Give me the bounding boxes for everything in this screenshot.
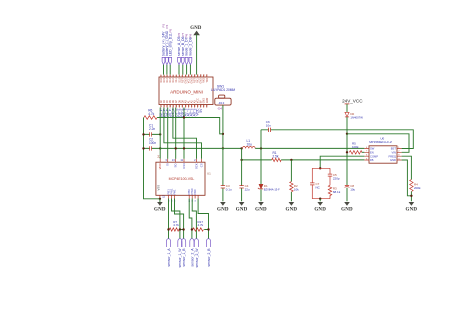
capacitor C5 220p <box>329 168 331 185</box>
pin 28 arduino bottom <box>193 100 197 117</box>
svg-text:200k: 200k <box>414 186 421 190</box>
pin 22 arduino bottom <box>174 100 178 117</box>
node junction R17 left <box>191 228 193 230</box>
wire VCC rail A <box>160 147 241 149</box>
wire D0 to VIN rail <box>346 117 348 134</box>
node junction R17 right <box>207 228 209 230</box>
arduino top pins <box>160 73 209 83</box>
svg-text:-D13: -D13 <box>218 101 225 105</box>
wire arduino VCC pin to MCP VDD <box>159 108 161 159</box>
svg-text:220p: 220p <box>333 177 340 181</box>
svg-text:FB: FB <box>370 158 374 162</box>
svg-text:TX0: TX0 <box>206 78 209 83</box>
wire arduino pin to MCP CS <box>164 108 202 159</box>
node junction VIN <box>346 133 348 135</box>
wire <box>169 65 171 75</box>
capacitor C4 22u <box>241 148 243 201</box>
wire MCP PB0 to connector 3a <box>189 199 192 239</box>
wire MCP PW0 to connector 3b <box>192 199 196 239</box>
wire MCP PW1 to connector 2a <box>172 199 180 239</box>
SECTION: midwires <box>160 108 364 202</box>
svg-text:GND: GND <box>217 207 229 212</box>
wire MCP pin to connector 4 <box>198 199 208 239</box>
pin 23 arduino bottom <box>177 100 181 117</box>
pin 8 arduino top <box>181 74 184 83</box>
wire comp box to GND <box>319 199 321 202</box>
svg-text:VIN: VIN <box>392 150 397 154</box>
svg-text:LED_strip_D11: LED_strip_D11 <box>168 33 172 56</box>
svg-text:SW: SW <box>370 147 375 151</box>
connector P5 pin <box>168 28 172 64</box>
svg-text:ARDUINO_MINI: ARDUINO_MINI <box>170 89 203 94</box>
svg-text:5V: 5V <box>199 108 203 113</box>
wire <box>178 65 180 75</box>
node junction comp bottom <box>319 198 321 200</box>
wire arduino pin to MCP SI <box>167 108 169 159</box>
wire GND flag to arduino top pin <box>196 35 198 75</box>
wire SW node rail to U0 <box>255 147 364 149</box>
svg-text:100k: 100k <box>352 145 359 149</box>
node junction comp top <box>319 167 321 169</box>
node junction rail/C4 <box>240 147 242 149</box>
svg-text:22u: 22u <box>245 188 250 192</box>
node junction C2 right <box>159 147 161 149</box>
svg-text:CS: CS <box>200 163 204 167</box>
connector pin sens_1_B <box>182 239 186 267</box>
svg-text:GND: GND <box>286 207 298 212</box>
svg-text:P4: P4 <box>165 24 169 28</box>
connector P8 pin <box>185 33 189 64</box>
svg-text:SI: SI <box>166 163 170 166</box>
wire arduino pin to MCP R14 <box>183 108 185 159</box>
svg-text:SCK: SCK <box>195 163 199 169</box>
pin 15 arduino top <box>203 73 206 83</box>
pin 26 arduino bottom <box>187 100 191 117</box>
svg-text:R14: R14 <box>182 163 186 169</box>
node junction rail/R14 <box>183 147 185 149</box>
diode D1 BZX84A-13-F <box>260 148 262 201</box>
svg-text:GND: GND <box>190 26 202 31</box>
svg-text:sensor_2_W: sensor_2_W <box>195 248 199 268</box>
svg-text:VSS: VSS <box>157 185 161 191</box>
compensation network box with C7 / C5 / R3 <box>312 168 330 198</box>
wire <box>186 65 188 75</box>
svg-text:0.1u: 0.1u <box>226 188 232 192</box>
pin 7 arduino top <box>178 74 181 82</box>
SECTION: gndsyms <box>154 202 417 212</box>
wire left vertical (GND side) <box>144 118 160 199</box>
pin 21 arduino bottom <box>171 100 175 117</box>
wire <box>163 65 165 75</box>
svg-text:VDD: VDD <box>158 163 162 169</box>
SECTION: top gnd <box>190 26 202 75</box>
connector P9 pin <box>189 33 193 64</box>
node junction R7 end <box>182 228 184 230</box>
node junction R5 tap <box>346 151 348 153</box>
wire <box>182 65 184 75</box>
node junction D10/R6 <box>183 116 185 118</box>
wire SW1 to VCC rail <box>222 105 224 148</box>
pin 9 arduino top <box>184 74 187 83</box>
wire arduino pin to MCP SCK <box>173 108 197 159</box>
SECTION: mcp <box>156 155 211 202</box>
svg-text:RAW: RAW <box>206 97 209 103</box>
wire MCP PB1 to connector 1 <box>168 199 170 239</box>
svg-text:10u: 10u <box>247 143 253 147</box>
SECTION: sw1 <box>211 84 235 149</box>
svg-text:FREQ: FREQ <box>389 154 396 158</box>
pin CS (1) <box>200 159 204 167</box>
capacitor C3 0.1u <box>222 148 224 201</box>
connector P7 pin <box>181 32 185 64</box>
svg-text:MCP4E100-VSL: MCP4E100-VSL <box>169 177 195 181</box>
node junction C1 right <box>159 133 161 135</box>
node junction R7 left <box>167 228 169 230</box>
pin 27 arduino bottom <box>190 100 194 117</box>
pin SO (13) <box>172 158 178 168</box>
svg-text:4.7k: 4.7k <box>198 223 204 227</box>
svg-text:GND: GND <box>390 158 396 162</box>
svg-text:PA1: PA1 <box>173 189 177 195</box>
connector pin sens_2_B <box>206 239 211 267</box>
wire FREQ to R4 <box>402 156 412 179</box>
svg-text:GND: GND <box>341 207 353 212</box>
wire arduino pin to rail / MCP SO <box>175 108 177 159</box>
svg-text:GND: GND <box>314 207 326 212</box>
ground symbol at x=291.4 <box>286 202 298 212</box>
node junction SW1/D13 <box>222 133 224 135</box>
connector P4 pin <box>165 24 169 64</box>
connector pin sens_1_A <box>166 239 170 267</box>
svg-text:P9: P9 <box>189 33 193 37</box>
connector P3 pin <box>162 23 166 64</box>
ground symbol at x=222.9 <box>217 202 229 212</box>
svg-text:GND: GND <box>236 207 248 212</box>
ground symbol at x=158.6 <box>154 202 166 212</box>
svg-text:sensor_1_A: sensor_1_A <box>167 248 171 267</box>
resistor R4 200k <box>410 180 413 192</box>
node junction VSS/GND <box>159 198 161 200</box>
wire VIN down to C8 and R5 <box>346 134 348 202</box>
node junction SW/D1 <box>260 147 262 149</box>
capacitor C7 NC <box>310 183 314 185</box>
svg-text:mode_2_D8: mode_2_D8 <box>189 37 193 56</box>
svg-text:2.2n: 2.2n <box>149 127 155 131</box>
wire FB rail B <box>242 159 365 161</box>
pin 32 arduino bottom <box>206 97 209 107</box>
pin 19 arduino bottom <box>165 100 169 118</box>
pin 31 arduino bottom <box>203 98 206 108</box>
op-amp U2 ARDUINO_MINI body <box>159 77 213 105</box>
svg-text:MP1584EN-LF-Z: MP1584EN-LF-Z <box>369 140 392 144</box>
pin 10 arduino top <box>187 73 190 83</box>
node junction railB/C4 <box>240 159 242 161</box>
MCP bottom pins cluster A <box>167 188 177 202</box>
node junction SW1/VCC <box>222 147 224 149</box>
svg-text:24V_VCC: 24V_VCC <box>342 98 363 103</box>
pin SCK (2) <box>194 158 198 169</box>
pin VDD (14) <box>157 155 163 170</box>
node junction C2 left <box>142 147 144 149</box>
svg-text:P5: P5 <box>168 28 172 32</box>
pin 14 arduino top <box>200 73 203 83</box>
MCP bottom pins cluster B <box>187 188 198 202</box>
wire R6 line to SW1 branch <box>157 118 223 134</box>
pin 17 arduino bottom <box>159 100 163 118</box>
resistor R3 68.1k <box>328 185 331 198</box>
connector pin sens_2_W <box>194 239 199 268</box>
svg-text:-D4: -D4 <box>217 107 222 111</box>
digital pot U1 MCP4E100-VSL body <box>156 162 205 195</box>
svg-text:10u: 10u <box>350 188 355 192</box>
pin 29 arduino bottom <box>196 98 200 116</box>
pin SI (3) <box>165 158 169 166</box>
svg-text:GND: GND <box>154 207 166 212</box>
svg-text:sensor_2_B: sensor_2_B <box>207 248 211 267</box>
svg-text:1N4007W: 1N4007W <box>350 116 363 120</box>
pin 3 arduino top <box>166 74 169 82</box>
pin 4 arduino top <box>169 74 172 82</box>
svg-text:10n: 10n <box>266 124 271 128</box>
pin 6 arduino top <box>175 74 178 82</box>
svg-text:sensor_1_B: sensor_1_B <box>182 248 186 267</box>
capacitor C8 10u <box>345 184 349 186</box>
U0 left pins SW EN COMP FB <box>364 149 369 161</box>
wire 24V to D0 <box>346 104 348 112</box>
svg-text:COMP: COMP <box>370 154 378 158</box>
pin VSS <box>157 185 166 199</box>
svg-text:D1: D1 <box>264 184 268 188</box>
pin 2 arduino top <box>163 74 166 82</box>
SECTION: arduino <box>159 73 213 117</box>
resistor R2 10k <box>290 160 292 201</box>
pin 5 arduino top <box>172 74 175 82</box>
svg-text:PA0: PA0 <box>193 189 197 195</box>
SECTION: gndrow <box>0 0 1 1</box>
node junction R7 right <box>179 228 181 230</box>
svg-text:68.1k: 68.1k <box>333 190 341 194</box>
svg-text:BZX84A-13-F: BZX84A-13-F <box>264 188 280 192</box>
SECTION: bottom <box>166 199 211 268</box>
pin 11 arduino top <box>191 73 194 83</box>
ground symbol at x=320.2 <box>314 202 326 212</box>
node junction C1 left <box>142 133 144 135</box>
pin 18 arduino bottom <box>162 100 166 118</box>
svg-text:LILYPAD1 20MM: LILYPAD1 20MM <box>211 88 235 92</box>
pin 30 arduino bottom <box>199 100 203 113</box>
svg-text:GND: GND <box>406 207 418 212</box>
wire C6 left corner down to SW node <box>260 130 262 149</box>
pin R14 (11) <box>180 158 186 169</box>
node junction railB/R2 <box>290 159 292 161</box>
ground symbol at x=347.0 <box>341 202 353 212</box>
pin 25 arduino bottom <box>184 100 188 117</box>
svg-text:100n: 100n <box>149 141 156 145</box>
pin 20 arduino bottom <box>168 100 172 118</box>
pin 16 arduino top <box>206 73 209 82</box>
connector pin sens_2_A <box>190 239 195 267</box>
ground symbol at x=411.4 <box>406 202 418 212</box>
ground symbol at x=241.6 <box>236 202 248 212</box>
svg-text:sensor_2_A: sensor_2_A <box>190 248 194 267</box>
connector pin sens_1_W <box>178 239 182 268</box>
connector P6 pin <box>177 32 181 64</box>
SECTION: power <box>261 98 421 201</box>
svg-text:10k: 10k <box>294 188 299 192</box>
wire COMP to compensation network <box>320 156 364 168</box>
diode D0 1N4007W <box>345 112 349 116</box>
svg-text:EN: EN <box>370 150 374 154</box>
wire U0 GND pin to gnd <box>402 160 412 201</box>
node junction rail/SO <box>175 147 177 149</box>
ground symbol at x=261.0 <box>255 202 267 212</box>
wire <box>189 65 191 75</box>
svg-text:4.7k: 4.7k <box>173 223 179 227</box>
SECTION: left rc <box>142 109 223 199</box>
svg-text:U1: U1 <box>207 172 211 176</box>
wire MCP PA1 to connector 2b <box>175 199 184 239</box>
wire <box>166 65 168 75</box>
svg-text:BST: BST <box>391 147 397 151</box>
svg-text:GND: GND <box>255 207 267 212</box>
wire VIN rail to U0 VIN pin <box>347 134 409 153</box>
pin 12 arduino top <box>194 73 197 83</box>
pin 1 arduino top <box>160 74 163 82</box>
pin 24 arduino bottom <box>180 100 184 117</box>
pin 13 arduino top <box>197 73 200 83</box>
SECTION: top connectors <box>162 23 193 74</box>
node junction R4/gnd <box>410 195 412 197</box>
U0 right pins BST VIN FREQ GND <box>397 149 402 161</box>
